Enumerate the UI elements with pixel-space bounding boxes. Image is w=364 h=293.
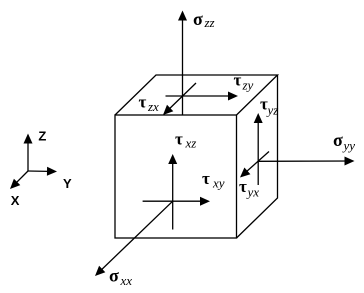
svg-text:X: X (11, 193, 20, 208)
svg-text:yx: yx (246, 185, 260, 200)
arrow tau_xz (168, 154, 177, 230)
arrow tau_yx (240, 152, 269, 178)
svg-text:τ: τ (175, 130, 183, 149)
arrow tau_zy (166, 92, 239, 101)
svg-text:Z: Z (38, 129, 46, 144)
arrow tau_zx (163, 83, 196, 115)
label tau_zx (139, 93, 160, 115)
svg-text:σ: σ (193, 9, 203, 29)
label tau_xz (175, 130, 196, 151)
cube top face (115, 75, 278, 115)
axis Y arrow (28, 167, 57, 176)
svg-text:yz: yz (266, 103, 279, 118)
svg-text:Y: Y (63, 176, 72, 191)
arrow sigma_zz (178, 11, 187, 116)
cube front face (115, 115, 237, 238)
label sigma_yy (333, 130, 355, 153)
svg-text:yy: yy (342, 138, 356, 153)
arrow sigma_yy (258, 157, 354, 166)
label tau_zy (234, 71, 254, 93)
svg-text:σ: σ (109, 266, 119, 286)
svg-text:τ: τ (139, 93, 147, 112)
svg-text:xy: xy (212, 176, 225, 191)
svg-text:zy: zy (242, 78, 254, 93)
label sigma_xx (109, 266, 132, 289)
axis Z arrow (24, 134, 33, 172)
axis X arrow (10, 171, 28, 189)
arrow sigma_xx (95, 201, 173, 276)
arrow tau_xy (143, 197, 210, 206)
svg-text:zz: zz (204, 15, 215, 30)
label sigma_zz (193, 9, 215, 30)
arrow tau_yz (254, 113, 263, 185)
svg-text:τ: τ (202, 169, 210, 188)
svg-text:σ: σ (333, 130, 343, 150)
svg-text:τ: τ (234, 71, 242, 90)
svg-text:xz: xz (185, 136, 197, 151)
svg-text:τ: τ (239, 177, 247, 196)
svg-text:xx: xx (120, 273, 133, 288)
label tau_yz (260, 95, 278, 118)
svg-text:zx: zx (147, 99, 159, 114)
label tau_yx (239, 177, 259, 200)
cube right face (237, 75, 278, 238)
label tau_xy (202, 169, 225, 191)
